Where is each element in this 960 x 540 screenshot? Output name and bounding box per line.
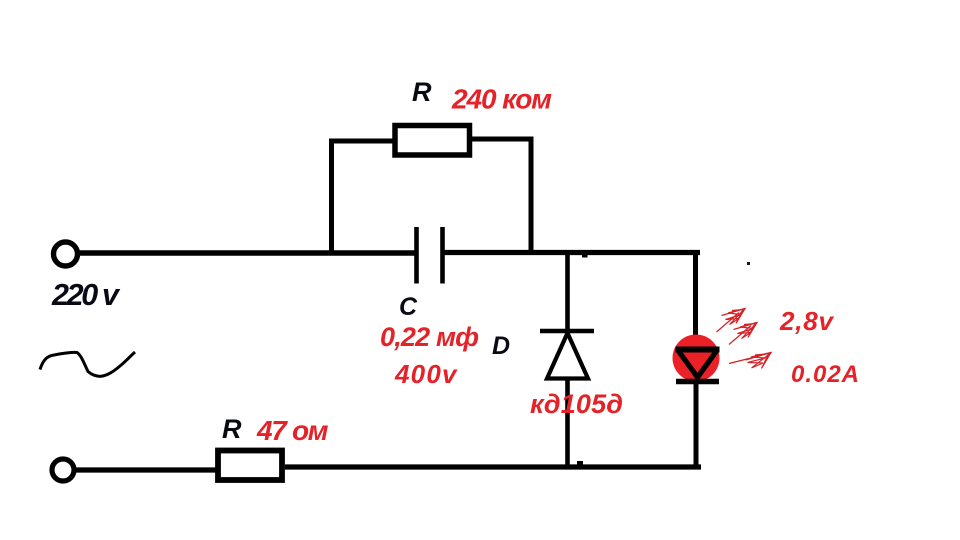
wire LED branch upper	[693, 250, 698, 336]
wire bottom from R2 to LED branch	[285, 464, 701, 469]
light arrow 1	[717, 309, 746, 333]
LED VD1 cathode bar	[676, 379, 719, 384]
wire loop left vertical	[329, 139, 334, 256]
svg-text:0.02A: 0.02A	[791, 361, 859, 388]
AC sine symbol	[40, 352, 135, 376]
svg-text:D: D	[492, 332, 510, 360]
junction tick top wire	[582, 254, 588, 258]
svg-text:400v: 400v	[394, 359, 458, 389]
svg-text:240 ком: 240 ком	[451, 84, 552, 115]
light arrow 3	[729, 353, 771, 369]
resistor R1	[395, 126, 470, 156]
svg-text:C: C	[399, 293, 418, 321]
svg-text:2,8v: 2,8v	[779, 306, 835, 336]
wire loop top-right horizontal	[470, 137, 534, 142]
resistor R2	[218, 451, 282, 481]
diode D1 cathode bar	[540, 329, 594, 334]
svg-text:R: R	[222, 414, 242, 444]
svg-text:47 ом: 47 ом	[256, 415, 329, 446]
LED VD1 triangle	[676, 350, 720, 379]
svg-text:0,22 мф: 0,22 мф	[380, 322, 479, 352]
capacitor C1 left plate	[414, 227, 419, 284]
svg-text:кд105д: кд105д	[530, 389, 623, 419]
capacitor C1 right plate	[440, 227, 445, 284]
wire diode branch lower	[565, 378, 570, 469]
LED VD1 body	[673, 335, 720, 382]
svg-text:R: R	[412, 77, 432, 107]
wire top from capacitor to LED branch	[444, 250, 700, 255]
junction tick diode bottom	[577, 461, 583, 465]
wire diode branch upper	[565, 250, 570, 331]
wire loop right vertical	[529, 137, 534, 255]
light arrow 2	[729, 323, 757, 345]
terminal T1 (top input)	[54, 242, 78, 266]
wire top from T1 to capacitor	[78, 250, 416, 256]
wire bottom from T2 to R2	[76, 467, 217, 472]
wire LED branch lower	[694, 382, 699, 469]
diode D1 triangle	[547, 333, 588, 379]
wire loop top-left horizontal	[329, 139, 395, 144]
terminal T2 (bottom input)	[52, 459, 74, 481]
stray dot	[747, 262, 750, 265]
svg-text:220 v: 220 v	[51, 278, 121, 312]
